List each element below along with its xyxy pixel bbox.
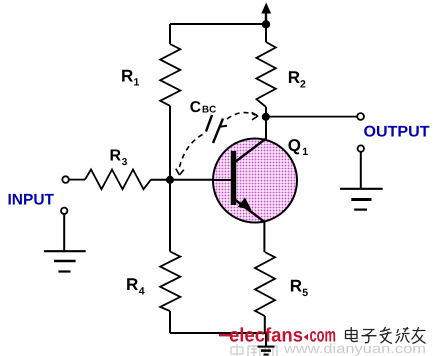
label Q1 — [288, 136, 309, 158]
input ground terminal circle — [61, 208, 67, 214]
dashed arrow C_BC to base — [176, 135, 203, 176]
watermark elecfans.com — [219, 325, 336, 347]
wire R2 bottom lead — [265, 107, 267, 117]
svg-text:1: 1 — [134, 76, 140, 88]
ground bottom — [258, 347, 275, 355]
label R4 — [126, 275, 145, 297]
transistor Q1 base bar — [231, 151, 236, 205]
label C_BC — [190, 99, 216, 116]
label R2 — [288, 68, 306, 90]
svg-text:3: 3 — [122, 157, 128, 168]
svg-text:2: 2 — [300, 79, 306, 91]
transistor Q1 emitter stroke — [234, 199, 264, 222]
svg-text:R: R — [126, 275, 138, 294]
watermark chinese 电子发烧友 — [346, 327, 426, 344]
output terminal circle — [357, 113, 364, 120]
svg-text:4: 4 — [139, 285, 145, 297]
wire base inside transistor — [212, 179, 232, 181]
wire base — [151, 179, 232, 181]
wire bottom ground stub — [265, 333, 267, 346]
wire R4 top lead — [169, 180, 171, 252]
svg-text:1: 1 — [302, 146, 308, 158]
ground input — [44, 251, 86, 271]
capacitor C_BC plates — [206, 115, 227, 143]
label R5 — [290, 277, 309, 299]
node base junction dot — [166, 176, 174, 184]
svg-text:BC: BC — [202, 105, 216, 116]
svg-text:com: com — [310, 325, 337, 347]
wire output ground lead — [360, 152, 362, 189]
wire top rail VCC — [170, 23, 266, 25]
node collector junction dot — [262, 113, 270, 121]
watermark dianyuan gray — [231, 341, 426, 356]
svg-text:5: 5 — [302, 287, 308, 299]
svg-text:R: R — [110, 148, 122, 165]
dashed arrow C_BC to collector — [227, 112, 258, 119]
output ground terminal circle — [358, 145, 364, 151]
svg-text:INPUT: INPUT — [8, 192, 55, 209]
wire collector vertical — [265, 117, 267, 139]
svg-text:www.dianyuan.com: www.dianyuan.com — [283, 341, 426, 356]
wire bottom rail — [170, 332, 266, 334]
wire R4 bottom lead — [169, 311, 171, 333]
svg-text:R: R — [121, 66, 133, 85]
resistor R2 — [256, 42, 275, 107]
svg-text:C: C — [190, 99, 201, 116]
transistor Q1 collector stroke — [235, 139, 266, 163]
junction dot top rail — [262, 20, 270, 28]
label R1 — [121, 66, 140, 88]
label R3 — [110, 148, 128, 168]
resistor R4 — [160, 252, 180, 312]
wire emitter vertical — [263, 222, 265, 252]
svg-text:R: R — [290, 277, 302, 296]
wire R2 top lead — [265, 24, 267, 42]
resistor R1 — [160, 44, 180, 106]
ground output — [340, 189, 383, 210]
svg-text:Q: Q — [288, 136, 301, 155]
transistor Q1 body — [213, 139, 297, 223]
VCC supply arrow — [261, 3, 271, 25]
wire R5 bottom lead — [264, 316, 266, 333]
wire R1 bottom lead — [169, 106, 171, 180]
resistor R5 — [255, 252, 275, 316]
wire R1 top lead — [169, 24, 171, 44]
wire input lead — [69, 179, 85, 181]
wire output — [266, 116, 357, 118]
wire input ground lead — [63, 214, 65, 251]
resistor R3 — [85, 170, 151, 190]
transistor Q1 emitter arrowhead — [238, 198, 252, 211]
svg-text:R: R — [288, 68, 300, 87]
input terminal circle — [62, 176, 69, 183]
svg-text:OUTPUT: OUTPUT — [364, 124, 431, 141]
